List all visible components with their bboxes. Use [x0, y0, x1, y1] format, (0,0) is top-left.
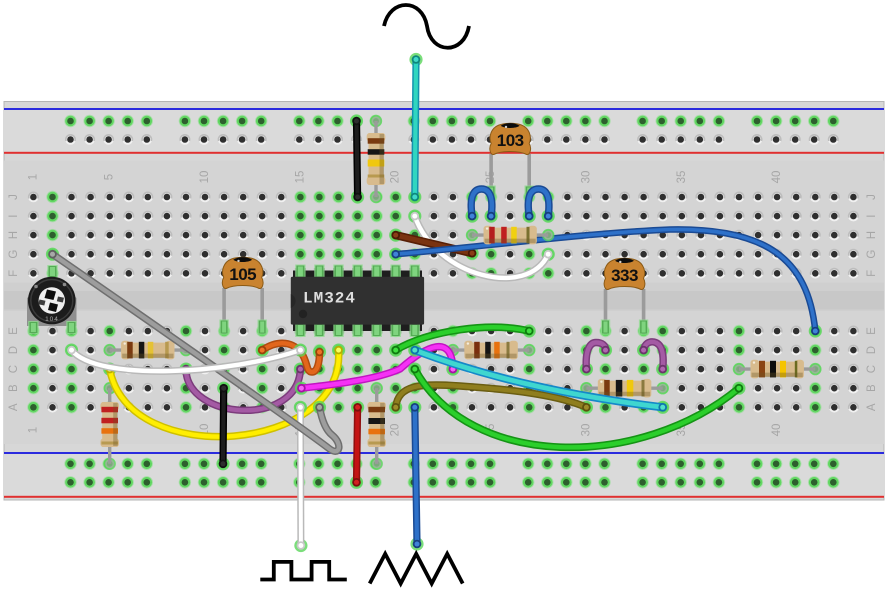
svg-text:LM324: LM324	[303, 290, 356, 308]
svg-text:J: J	[866, 194, 878, 200]
svg-text:B: B	[8, 384, 20, 392]
wire blue hook I24 to I25	[466, 189, 498, 223]
resistor R brown-black-yellow (B30-B34)	[580, 379, 669, 398]
resistor R red-red-orange vertical (B5-rail)	[100, 382, 119, 470]
potentiometer 104 (trimmer)	[27, 265, 77, 334]
triangle wave symbol (output)	[370, 554, 463, 584]
wire purple hook C30 to D31	[580, 343, 612, 376]
svg-text:35: 35	[676, 171, 688, 184]
wire olive A20 to A30	[389, 385, 593, 414]
wire brown H20 to G24	[389, 229, 479, 260]
wire blue G20 to E42 (long)	[389, 229, 822, 337]
wire green C21 to B38 (big arc)	[408, 363, 745, 448]
svg-text:E: E	[866, 327, 878, 335]
svg-text:H: H	[8, 231, 20, 239]
capacitor C 333	[601, 258, 649, 334]
svg-text:30: 30	[580, 171, 592, 184]
wire black vertical B11 to bottom rail	[216, 382, 230, 471]
wire green D20 to E27	[389, 324, 536, 356]
square wave symbol (output)	[260, 562, 347, 580]
wire magenta B15 to C23	[295, 347, 460, 395]
svg-text:F: F	[8, 270, 20, 277]
wire red vertical A18 to bottom rail row2	[350, 401, 364, 489]
svg-text:H: H	[866, 231, 878, 239]
wire blue hook I27 to I28	[523, 189, 555, 223]
svg-text:1: 1	[27, 174, 39, 180]
svg-text:10: 10	[199, 171, 211, 184]
resistor R brown-black-yellow vertical (rail-J19)	[367, 115, 386, 203]
svg-text:G: G	[866, 250, 878, 259]
wire white D3 to D15	[65, 344, 307, 372]
wire cyan D21 to A34 (diagonal)	[408, 344, 669, 414]
svg-text:A: A	[8, 403, 20, 411]
svg-text:B: B	[866, 384, 878, 392]
svg-text:J: J	[8, 194, 20, 200]
svg-text:C: C	[866, 365, 878, 373]
svg-text:5: 5	[104, 174, 116, 180]
resistor R brown-black-orange vertical (B19-rail)	[367, 382, 386, 470]
wire purple C9 to C15	[179, 363, 307, 411]
svg-text:D: D	[866, 346, 878, 354]
wire white vertical A15 to square-wave output	[294, 401, 308, 552]
wire gray G2 to A16 (long diagonal with loop)	[46, 248, 339, 452]
svg-text:F: F	[866, 270, 878, 277]
svg-text:1: 1	[27, 427, 39, 433]
wire blue vertical A21 to triangle-wave output	[408, 401, 423, 551]
svg-text:E: E	[8, 327, 20, 335]
power rail lines bottom (blue +, red -)	[4, 452, 884, 498]
svg-text:A: A	[866, 403, 878, 411]
capacitor C 103	[486, 123, 534, 200]
op-amp IC U1 LM324	[291, 265, 424, 338]
svg-text:G: G	[8, 250, 20, 259]
capacitor C 105	[219, 257, 267, 334]
svg-text:30: 30	[580, 424, 592, 437]
svg-text:D: D	[8, 346, 20, 354]
breadboard base	[4, 102, 884, 501]
resistor R brown-black-yellow (D5-D9)	[104, 341, 193, 360]
svg-text:20: 20	[390, 424, 402, 437]
svg-text:40: 40	[771, 171, 783, 184]
resistor R brown-black-orange (D23-D27)	[447, 341, 536, 360]
resistor R red-red-yellow (H24-H28)	[466, 226, 555, 245]
wire black top rail to J18	[350, 114, 364, 203]
svg-text:15: 15	[294, 171, 306, 184]
wire orange D13 to D16	[256, 343, 327, 372]
svg-text:I: I	[866, 214, 878, 217]
wire purple hook D33 to C34	[637, 342, 669, 376]
svg-text:20: 20	[390, 171, 402, 184]
resistor R brown-black-yellow (C38-C42)	[733, 360, 822, 379]
svg-text:333: 333	[611, 266, 638, 285]
svg-text:C: C	[8, 365, 20, 373]
wire cyan vertical from sine input to J21	[408, 53, 422, 204]
svg-text:103: 103	[497, 131, 524, 150]
row/column labels	[8, 171, 878, 437]
wire white I21 to G28	[408, 210, 555, 278]
svg-text:105: 105	[229, 265, 256, 284]
sine wave symbol (input signal)	[384, 5, 469, 48]
svg-text:40: 40	[771, 424, 783, 437]
power rail lines top (blue +, red -)	[4, 108, 884, 154]
svg-text:I: I	[8, 214, 20, 217]
svg-text:104: 104	[45, 316, 59, 323]
wire yellow C5 to D17	[103, 344, 345, 437]
